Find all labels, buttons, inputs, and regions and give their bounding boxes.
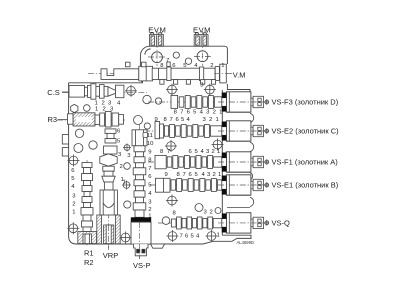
small hole top a bbox=[173, 52, 179, 58]
svg-text:VRP: VRP bbox=[103, 251, 118, 260]
hole low b bbox=[195, 204, 203, 212]
svg-text:3: 3 bbox=[118, 152, 122, 158]
hole left c bbox=[74, 144, 83, 153]
svg-text:6: 6 bbox=[176, 117, 180, 123]
VRP hex nut bbox=[100, 154, 117, 166]
svg-text:3: 3 bbox=[148, 199, 152, 205]
svg-text:VS-P: VS-P bbox=[133, 261, 151, 270]
crosshair below shaft right bbox=[204, 84, 216, 96]
svg-text:VS-F1 (золотник A): VS-F1 (золотник A) bbox=[272, 158, 339, 167]
svg-text:9: 9 bbox=[165, 172, 168, 178]
svg-text:3: 3 bbox=[206, 149, 210, 155]
svg-text:2: 2 bbox=[72, 202, 75, 208]
svg-text:8: 8 bbox=[177, 172, 181, 178]
crosshair bottom a bbox=[120, 232, 132, 244]
VS-P solenoid black band bbox=[131, 217, 151, 222]
svg-text:1: 1 bbox=[216, 117, 219, 123]
svg-text:8: 8 bbox=[174, 110, 178, 116]
VRP upper ring bbox=[104, 146, 118, 154]
crosshair left mid bbox=[68, 155, 80, 167]
VS-P solenoid body bbox=[131, 222, 151, 244]
svg-text:5: 5 bbox=[148, 183, 152, 189]
svg-text:1: 1 bbox=[217, 149, 220, 155]
bobbin above VRP bbox=[105, 129, 116, 143]
svg-text:9: 9 bbox=[148, 149, 151, 155]
svg-text:4: 4 bbox=[201, 149, 205, 155]
svg-text:2: 2 bbox=[209, 117, 212, 123]
C.S row centerline bbox=[62, 92, 147, 94]
svg-text:8: 8 bbox=[160, 149, 164, 155]
svg-text:5: 5 bbox=[191, 233, 195, 239]
svg-text:2: 2 bbox=[213, 172, 216, 178]
VS-F3 numbers bbox=[174, 110, 223, 116]
svg-text:VS-E2 (золотник C): VS-E2 (золотник C) bbox=[272, 127, 340, 136]
VS-F1 mount blacks bbox=[222, 153, 227, 158]
svg-text:8: 8 bbox=[148, 158, 152, 164]
number column inner left bbox=[117, 129, 124, 184]
svg-text:2: 2 bbox=[212, 149, 215, 155]
hex plug left bbox=[71, 104, 78, 112]
VS-F1 solenoid body bbox=[226, 152, 251, 172]
svg-text:4: 4 bbox=[200, 110, 204, 116]
VRP column centerline bbox=[108, 147, 110, 250]
svg-text:1: 1 bbox=[218, 172, 221, 178]
R1 R2 spool column bbox=[78, 163, 97, 244]
crosshair low a bbox=[166, 195, 178, 207]
VS-E2 mount blacks bbox=[222, 122, 227, 127]
hole left d bbox=[89, 141, 97, 149]
svg-text:4: 4 bbox=[117, 101, 121, 107]
svg-text:5: 5 bbox=[117, 139, 121, 145]
VRP stem bbox=[102, 166, 115, 190]
VS-F3 mount blacks bbox=[222, 93, 227, 98]
hole left a bbox=[84, 105, 91, 112]
svg-text:2: 2 bbox=[120, 164, 123, 170]
main valve body outline bbox=[69, 80, 251, 244]
VS-E1 spool bbox=[156, 178, 222, 192]
svg-text:3: 3 bbox=[72, 194, 76, 200]
R3 row centerline bbox=[57, 119, 125, 121]
VRP piston bbox=[104, 225, 114, 244]
svg-text:R2: R2 bbox=[84, 258, 94, 267]
R3 cartridge bbox=[68, 112, 124, 128]
svg-text:V.M: V.M bbox=[233, 71, 246, 80]
VS-P spool column bbox=[133, 146, 146, 218]
VS-E1 solenoid body bbox=[226, 175, 251, 195]
left wall port tab b bbox=[62, 148, 68, 156]
left wall port tab a bbox=[62, 135, 68, 144]
VS-F1 numbers bbox=[160, 149, 220, 155]
edge notch F1/E1 bbox=[250, 173, 253, 180]
svg-text:7: 7 bbox=[183, 172, 186, 178]
svg-text:R3: R3 bbox=[48, 115, 58, 124]
port tab left of 11 bbox=[143, 132, 148, 137]
svg-text:3: 3 bbox=[204, 210, 208, 216]
svg-text:EVM: EVM bbox=[193, 26, 211, 35]
VS-F1 connector bbox=[251, 156, 269, 167]
svg-text:9: 9 bbox=[155, 117, 158, 123]
svg-text:4: 4 bbox=[71, 184, 75, 190]
svg-text:10: 10 bbox=[147, 141, 154, 147]
svg-text:7: 7 bbox=[180, 233, 183, 239]
svg-text:AL4699D: AL4699D bbox=[237, 240, 254, 245]
svg-text:EVM: EVM bbox=[148, 26, 166, 35]
svg-text:4: 4 bbox=[148, 191, 152, 197]
VS-Q mount blacks bbox=[222, 213, 227, 218]
svg-text:C.S: C.S bbox=[47, 88, 60, 97]
VS-E2 row centerline bbox=[144, 130, 268, 132]
crosshair bottom c bbox=[206, 230, 218, 242]
svg-text:7: 7 bbox=[166, 58, 169, 64]
svg-text:5: 5 bbox=[195, 149, 199, 155]
crosshair bottom b bbox=[167, 230, 179, 242]
VS-Q solenoid body bbox=[226, 213, 251, 233]
R3 leader bbox=[58, 119, 68, 121]
svg-text:6: 6 bbox=[117, 129, 121, 135]
crosshair mid a bbox=[165, 140, 177, 152]
VS-F3 solenoid body bbox=[226, 92, 251, 112]
solenoid inner flange lines bbox=[228, 92, 230, 233]
holes right of VRP bbox=[123, 144, 131, 152]
VS-E2 solenoid body bbox=[226, 121, 251, 141]
svg-text:3: 3 bbox=[127, 153, 131, 159]
VS-E2 connector bbox=[251, 125, 269, 136]
VS-E2 numbers bbox=[155, 117, 219, 123]
bore under EVM right bbox=[197, 51, 208, 62]
svg-text:7: 7 bbox=[170, 117, 173, 123]
VS-P column centerline bbox=[139, 124, 141, 259]
crosshair below shaft left bbox=[166, 84, 178, 96]
crosshair mid b bbox=[212, 139, 224, 151]
svg-text:5: 5 bbox=[71, 176, 75, 182]
svg-text:3: 3 bbox=[206, 110, 210, 116]
VS-F1 row centerline bbox=[148, 161, 268, 163]
crosshair left low bbox=[67, 222, 79, 234]
shaft pin numbers bbox=[160, 58, 224, 89]
svg-text:4: 4 bbox=[196, 233, 200, 239]
svg-text:1: 1 bbox=[221, 63, 224, 69]
EVM solenoid left bbox=[150, 33, 164, 46]
VS-E1 mount blacks bbox=[222, 176, 227, 181]
centerline overlays through solenoids bbox=[109, 74, 269, 259]
upper cover section outline bbox=[140, 46, 250, 92]
svg-text:R1: R1 bbox=[84, 249, 94, 258]
bore under EVM left bbox=[152, 52, 163, 63]
svg-text:VS-F3 (золотник D): VS-F3 (золотник D) bbox=[272, 98, 339, 107]
svg-text:2: 2 bbox=[210, 210, 213, 216]
small hole top b bbox=[185, 58, 191, 64]
svg-text:7: 7 bbox=[148, 166, 151, 172]
VS-P top block bbox=[132, 130, 147, 146]
VS-Q connector bbox=[251, 217, 269, 228]
svg-text:6: 6 bbox=[185, 233, 189, 239]
svg-text:6: 6 bbox=[189, 172, 193, 178]
svg-text:1: 1 bbox=[72, 210, 75, 216]
svg-text:5: 5 bbox=[193, 110, 197, 116]
edge bulge F3/E2 bbox=[250, 113, 254, 122]
svg-text:5: 5 bbox=[181, 117, 185, 123]
C.S cartridge bbox=[69, 84, 124, 99]
svg-text:1: 1 bbox=[148, 213, 151, 219]
center hole above VS-P column bbox=[134, 116, 143, 125]
VS-Q spool bbox=[162, 217, 222, 229]
VS-E2 spool bbox=[155, 122, 222, 139]
svg-text:6: 6 bbox=[187, 110, 191, 116]
VS-F3 row centerline bbox=[148, 101, 268, 103]
holes left of VS-F3 spool bbox=[143, 95, 151, 103]
EVM bore centerlines bbox=[156, 31, 158, 66]
VS-Q numbers bbox=[173, 211, 220, 240]
V.M shaft centerline bbox=[88, 73, 232, 75]
svg-text:VS-Q: VS-Q bbox=[272, 219, 291, 228]
VS-F1 spool bbox=[155, 155, 222, 168]
VS-F3 connector bbox=[251, 96, 269, 107]
C.S numbers bbox=[95, 101, 122, 113]
number column mid (11..1) bbox=[147, 133, 154, 219]
C.S crosshair bbox=[125, 85, 137, 97]
edge bulge E1/Q bbox=[250, 197, 254, 206]
svg-text:3: 3 bbox=[207, 172, 211, 178]
svg-text:VS-E1 (золотник B): VS-E1 (золотник B) bbox=[272, 181, 339, 190]
VS-P connector bbox=[134, 244, 148, 256]
svg-text:1: 1 bbox=[121, 177, 124, 183]
VS-Q row centerline bbox=[158, 222, 268, 224]
svg-text:3: 3 bbox=[203, 117, 207, 123]
VRP body walls hatched bbox=[97, 215, 102, 244]
svg-text:2: 2 bbox=[148, 207, 151, 213]
edge bulge E2/F1 bbox=[250, 142, 254, 151]
V.M shaft bbox=[101, 62, 226, 84]
svg-text:7: 7 bbox=[167, 149, 170, 155]
VS-E1 row centerline bbox=[150, 184, 268, 186]
VRP sleeve bbox=[100, 190, 117, 215]
svg-text:7: 7 bbox=[180, 110, 183, 116]
left number column bbox=[71, 168, 76, 216]
svg-text:5: 5 bbox=[195, 172, 199, 178]
svg-text:6: 6 bbox=[71, 168, 75, 174]
centerlines group bbox=[57, 31, 268, 259]
R1/R2 column centerline bbox=[86, 160, 88, 247]
VS-F3 spool bbox=[171, 95, 222, 108]
svg-text:8: 8 bbox=[173, 211, 177, 217]
VS-E1 numbers bbox=[165, 172, 222, 178]
svg-text:4: 4 bbox=[187, 117, 191, 123]
svg-text:6: 6 bbox=[189, 149, 193, 155]
hole left b bbox=[75, 129, 83, 137]
EVM solenoid right bbox=[194, 33, 208, 46]
svg-text:1: 1 bbox=[95, 106, 98, 112]
svg-text:2: 2 bbox=[213, 110, 216, 116]
svg-text:4: 4 bbox=[202, 172, 206, 178]
hole low c bbox=[215, 208, 221, 214]
svg-text:8: 8 bbox=[164, 117, 168, 123]
svg-text:6: 6 bbox=[148, 174, 152, 180]
svg-text:2: 2 bbox=[210, 63, 213, 69]
C.S leader bbox=[62, 91, 69, 93]
mount foot right of VS-P bbox=[151, 244, 165, 248]
VS-E1 connector bbox=[251, 179, 269, 190]
